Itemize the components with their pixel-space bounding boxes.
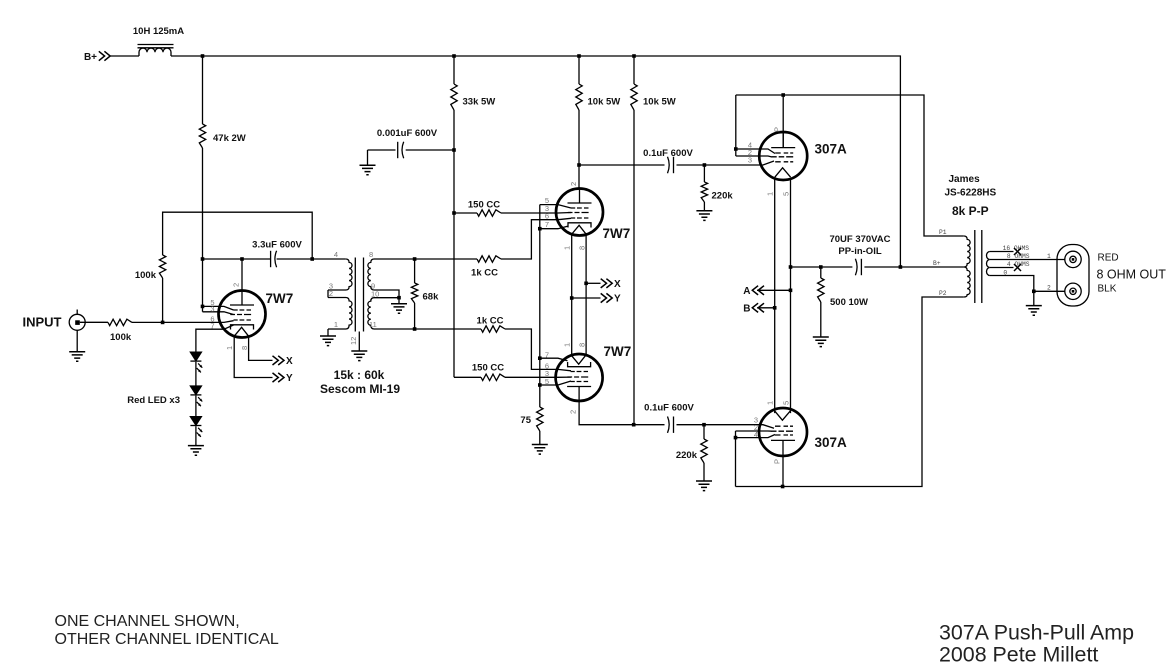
resistor 10k 5W first: [578, 56, 580, 84]
transformer T1 secondary 10-11: [368, 298, 415, 329]
svg-text:A: A: [743, 286, 750, 297]
pin 2 plate wire V1: [241, 259, 243, 291]
wire 47k to grid node: [202, 148, 204, 312]
svg-text:307A: 307A: [815, 142, 848, 157]
ground jack: [76, 330, 78, 351]
node X mid: [586, 282, 600, 284]
svg-text:B+: B+: [933, 260, 941, 267]
svg-text:15k : 60k: 15k : 60k: [334, 368, 385, 382]
svg-text:1k CC: 1k CC: [471, 268, 498, 279]
svg-text:James: James: [949, 174, 981, 185]
svg-text:1: 1: [225, 346, 234, 350]
filament wires V2-V3: [571, 234, 573, 355]
svg-text:Y: Y: [614, 294, 621, 305]
svg-text:70UF 370VAC: 70UF 370VAC: [829, 234, 890, 245]
resistor 47k 2W: [199, 124, 205, 148]
wire: [195, 396, 197, 417]
svg-text:7: 7: [210, 322, 214, 331]
svg-text:7: 7: [545, 351, 549, 360]
svg-text:1: 1: [563, 343, 572, 347]
node X: [273, 356, 285, 365]
svg-text:75: 75: [520, 415, 531, 426]
tube V3 7W7 lower (flipped): [556, 354, 603, 401]
pin 4/2 strap V5: [735, 431, 737, 487]
svg-text:8: 8: [577, 246, 586, 250]
tube V2 7W7 upper: [556, 189, 603, 236]
svg-text:Red LED x3: Red LED x3: [127, 395, 180, 406]
pin 5/7 strap: [539, 205, 541, 229]
ground 0.001uF: [367, 150, 369, 165]
connector J1 input jack: [69, 314, 85, 330]
tap 4 ohms: [990, 267, 1014, 269]
pin 2 plate wire V3: [579, 401, 634, 425]
svg-text:10H 125mA: 10H 125mA: [133, 26, 184, 37]
svg-text:10: 10: [371, 289, 379, 298]
diode LED D3: [190, 417, 202, 437]
resistor 75: [537, 407, 543, 431]
svg-text:7W7: 7W7: [266, 291, 294, 306]
wire + ground LEDs: [195, 426, 197, 445]
pin 5 wire V3: [540, 381, 571, 385]
svg-text:B+: B+: [84, 52, 97, 63]
resistor 10k 5W second: [633, 56, 635, 84]
svg-text:47k 2W: 47k 2W: [213, 133, 246, 144]
svg-text:Y: Y: [286, 373, 293, 384]
resistor 150 CC lower: [454, 376, 481, 378]
svg-text:8: 8: [240, 346, 249, 350]
svg-text:2: 2: [569, 182, 578, 186]
svg-text:8: 8: [577, 343, 586, 347]
transformer T1 secondary 8-9: [368, 259, 415, 298]
pin 4 wire V4: [736, 149, 775, 154]
svg-text:2008 Pete Millett: 2008 Pete Millett: [939, 643, 1098, 665]
svg-text:11: 11: [369, 320, 377, 329]
resistor 1k CC upper: [415, 258, 477, 260]
wire plate node to cap: [203, 258, 271, 260]
wire filament node to B+ tap: [791, 266, 853, 268]
tube V1 7W7: [219, 291, 266, 338]
pin 7 wire V2: [540, 226, 568, 228]
pin 7 wire V3: [540, 358, 568, 361]
pin 3 wire V1: [203, 312, 234, 315]
svg-text:1: 1: [334, 320, 338, 329]
tap 8 ohms to RED: [990, 259, 1065, 261]
transformer T1 core: [355, 258, 363, 332]
svg-text:8: 8: [369, 250, 373, 259]
resistor 100k grid-leak: [162, 278, 164, 322]
resistor 500 10W: [820, 267, 822, 278]
svg-text:7W7: 7W7: [603, 226, 631, 241]
wire to grid of V1: [132, 321, 234, 323]
pin 2 wire V5: [736, 430, 773, 432]
pin 2 plate wire V2: [578, 165, 580, 189]
diode LED D2: [190, 386, 202, 406]
svg-text:1: 1: [1047, 253, 1051, 260]
svg-text:P: P: [773, 459, 782, 464]
svg-text:100k: 100k: [110, 332, 132, 343]
tap 0 to BLK: [990, 276, 1065, 292]
transformer T1 primary 2-1: [328, 298, 352, 330]
pin 8 wire V1 to X: [249, 336, 273, 360]
svg-text:2: 2: [1047, 285, 1051, 292]
svg-text:5: 5: [782, 401, 791, 405]
svg-text:500 10W: 500 10W: [830, 297, 868, 308]
wire 33k down: [453, 110, 455, 377]
svg-text:3: 3: [210, 305, 214, 314]
pin 5 wire V2: [540, 205, 571, 208]
node Y: [273, 373, 285, 382]
svg-text:8 OHM OUT: 8 OHM OUT: [1097, 268, 1167, 282]
svg-text:7W7: 7W7: [604, 344, 632, 359]
resistor 220k lower: [703, 425, 705, 439]
resistor 1k CC lower: [415, 328, 481, 330]
svg-text:307A Push-Pull Amp: 307A Push-Pull Amp: [939, 621, 1134, 645]
svg-text:ONE CHANNEL SHOWN,: ONE CHANNEL SHOWN,: [55, 613, 240, 630]
svg-text:P: P: [773, 127, 782, 132]
ground secondary: [1033, 291, 1035, 305]
node Y mid: [572, 297, 601, 299]
svg-text:PP-in-OIL: PP-in-OIL: [838, 246, 881, 257]
svg-text:2: 2: [569, 410, 578, 414]
wire B+ rail: [171, 56, 900, 267]
svg-text:BLK: BLK: [1098, 284, 1117, 295]
resistor 150 CC upper: [454, 212, 477, 214]
svg-text:7: 7: [545, 220, 549, 229]
pin 1 wire V1 to Y: [234, 336, 272, 377]
svg-text:X: X: [614, 279, 621, 290]
transformer T2 core: [975, 230, 982, 303]
resistor 100k series: [108, 319, 132, 325]
svg-text:8k P-P: 8k P-P: [952, 204, 989, 218]
svg-text:JS-6228HS: JS-6228HS: [945, 188, 997, 199]
svg-text:1k CC: 1k CC: [477, 316, 504, 327]
svg-text:10k 5W: 10k 5W: [588, 97, 621, 108]
svg-text:X: X: [286, 356, 293, 367]
svg-text:INPUT: INPUT: [23, 315, 62, 330]
wire: [195, 362, 197, 386]
pin 7 wire V1 to LEDs: [196, 325, 234, 352]
pin 5 wire V1: [203, 306, 234, 310]
svg-text:0.001uF 600V: 0.001uF 600V: [377, 128, 438, 139]
svg-text:2: 2: [329, 289, 333, 298]
wire plate to output P2: [736, 297, 964, 487]
svg-text:100k: 100k: [135, 270, 157, 281]
pin 4 wire V5: [736, 435, 776, 438]
svg-text:1: 1: [563, 246, 572, 250]
transformer T2 secondary: [987, 252, 990, 276]
svg-text:P1: P1: [939, 229, 947, 236]
svg-text:5: 5: [782, 192, 791, 196]
pin 2 wire V4: [736, 156, 772, 157]
wire pin 10 ground: [397, 296, 401, 300]
pin 12 shield to ground: [358, 332, 360, 352]
svg-text:150 CC: 150 CC: [472, 363, 504, 374]
wire to V3 pin 6: [505, 329, 571, 371]
svg-text:OTHER CHANNEL IDENTICAL: OTHER CHANNEL IDENTICAL: [55, 631, 279, 648]
svg-text:5: 5: [545, 377, 549, 386]
svg-text:P2: P2: [939, 290, 947, 297]
svg-text:3: 3: [748, 156, 752, 165]
svg-text:RED: RED: [1098, 253, 1119, 264]
strap pins 5/7 down to 75R: [539, 229, 541, 407]
wire pins 3-2 strap: [327, 290, 329, 298]
svg-text:220k: 220k: [712, 191, 734, 202]
transformer T2 primary B+-P2: [964, 267, 970, 297]
wire to V2 pin 3: [501, 212, 571, 215]
svg-text:0: 0: [1003, 269, 1007, 276]
diode LED D1: [190, 352, 202, 372]
svg-text:220k: 220k: [676, 450, 698, 461]
svg-text:Sescom MI-19: Sescom MI-19: [320, 382, 400, 396]
tube V4 307A upper: [759, 132, 807, 180]
svg-text:307A: 307A: [815, 435, 848, 450]
svg-text:12: 12: [349, 337, 358, 345]
connector J2 speaker out: [1057, 245, 1089, 307]
filament wires V4-V5: [774, 179, 776, 413]
svg-text:4: 4: [754, 430, 758, 439]
wire feedback loop 100k to plate node: [163, 212, 313, 259]
svg-text:B: B: [743, 303, 750, 314]
transformer T1 primary 4-3: [328, 259, 352, 290]
plate wire V4: [782, 95, 784, 148]
wire pin 1 to ground: [327, 329, 329, 336]
svg-text:150 CC: 150 CC: [468, 200, 500, 211]
wire cap to transformer pin 4: [277, 258, 346, 260]
wire B+ to inductor: [110, 55, 139, 57]
svg-text:1: 1: [766, 192, 775, 196]
svg-text:3.3uF 600V: 3.3uF 600V: [252, 240, 302, 251]
wire 47k branch: [202, 56, 204, 124]
svg-text:4: 4: [334, 250, 338, 259]
svg-text:8 OHMS: 8 OHMS: [1007, 253, 1030, 260]
svg-text:33k 5W: 33k 5W: [463, 97, 496, 108]
wire to V2 pin 6: [501, 218, 571, 259]
resistor 33k 5W: [453, 56, 455, 84]
plate wire V5: [782, 456, 784, 487]
svg-text:0.1uF 600V: 0.1uF 600V: [644, 403, 694, 414]
transformer T2 primary P1-B+: [964, 236, 970, 267]
svg-text:1: 1: [766, 401, 775, 405]
pin 4/2 strap V4: [735, 95, 737, 156]
wire plate to output P1: [736, 95, 964, 236]
tap 16 ohms: [990, 251, 1014, 253]
tube V5 307A lower (flipped): [759, 408, 807, 456]
svg-text:68k: 68k: [423, 292, 440, 303]
svg-text:10k 5W: 10k 5W: [643, 97, 676, 108]
wire to V3 pin 3: [505, 376, 571, 378]
svg-text:2: 2: [232, 283, 241, 287]
resistor 68k: [414, 259, 416, 283]
resistor 220k upper: [703, 165, 705, 182]
